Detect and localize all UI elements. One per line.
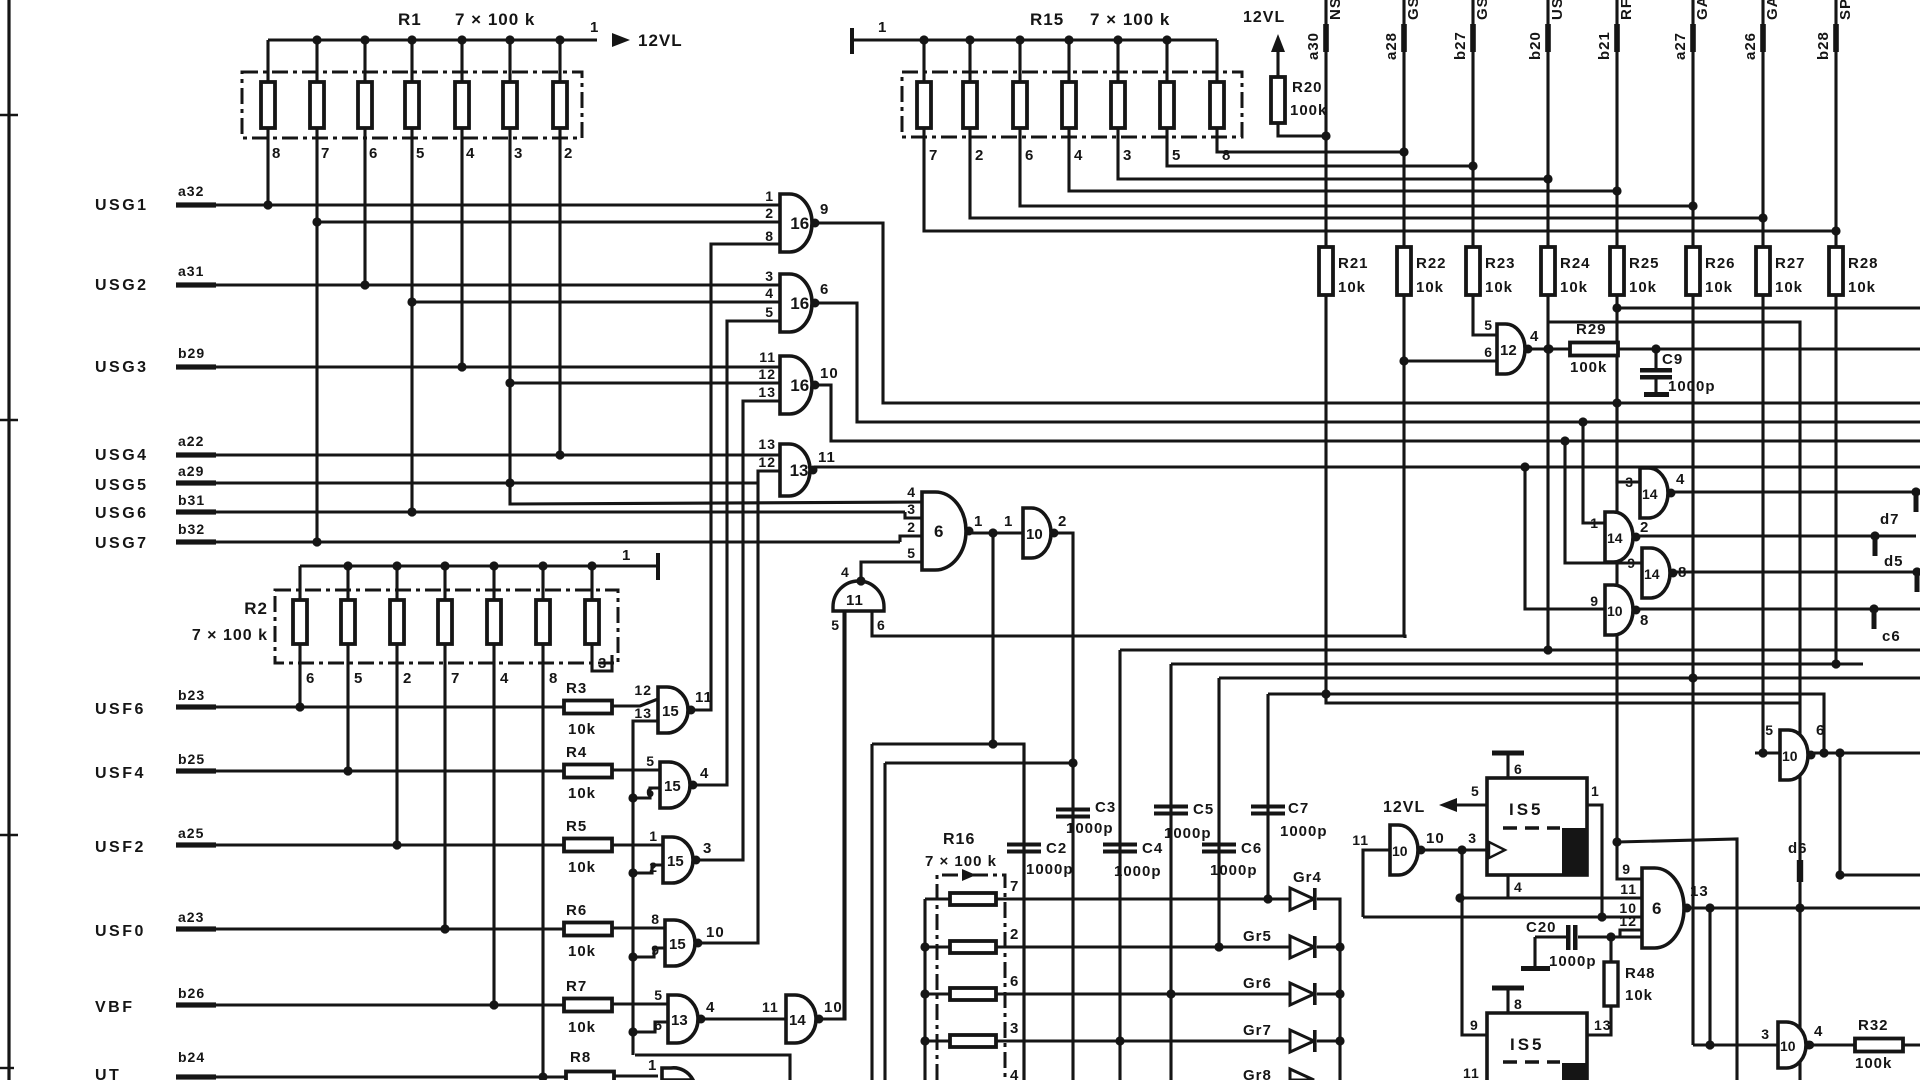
wire USG2 <box>214 283 780 286</box>
svg-text:14: 14 <box>1644 566 1660 582</box>
wire R1 pin6 <box>363 128 366 285</box>
svg-text:a23: a23 <box>178 909 204 925</box>
IS5 b internal dashes <box>1503 1060 1560 1063</box>
svg-text:5: 5 <box>1484 317 1493 333</box>
svg-text:R26: R26 <box>1705 255 1736 272</box>
wire <box>1165 40 1168 82</box>
resistor R3 <box>564 701 612 714</box>
junction R29/C9 <box>1651 344 1660 353</box>
wire R25 down <box>1617 295 1642 879</box>
wire gate12 output line <box>1524 347 1920 350</box>
wire <box>443 566 446 600</box>
wire R2 pin8 <box>541 645 544 1077</box>
connector pin a28 GS <box>1402 0 1405 248</box>
wire R16 row6 to Gr6 <box>996 992 1290 995</box>
svg-text:1000p: 1000p <box>1164 825 1212 842</box>
border tick <box>0 114 18 116</box>
wire <box>925 945 950 948</box>
wire USG7 to gate 6a input 2 <box>900 536 922 542</box>
svg-text:9: 9 <box>1470 1017 1479 1033</box>
svg-text:11: 11 <box>759 349 776 365</box>
resistor R1.1 <box>261 82 275 128</box>
wire <box>460 40 463 82</box>
resistor R16.2 <box>950 941 996 953</box>
svg-text:16: 16 <box>790 214 809 233</box>
wire <box>395 566 398 600</box>
gate 14r1 <box>1640 468 1668 518</box>
wire <box>1067 40 1070 82</box>
junction <box>489 561 498 570</box>
resistor R29 <box>1570 343 1618 356</box>
junction R2.8/UT <box>538 1072 547 1080</box>
wire bus to gate 13b input 6 <box>633 1022 668 1032</box>
resistor R2.4 <box>438 600 452 644</box>
resistor R6 <box>564 923 612 936</box>
svg-text:11: 11 <box>1352 832 1369 848</box>
wire R1 pin7 <box>315 128 318 545</box>
svg-text:1000p: 1000p <box>1210 862 1258 879</box>
diode Gr7 <box>1290 1030 1314 1052</box>
wire <box>922 40 925 82</box>
junction R24/R29 <box>1543 344 1552 353</box>
border tick <box>0 834 18 836</box>
wire <box>346 566 349 600</box>
resistor network R2 box <box>275 590 618 663</box>
wire <box>1116 40 1119 82</box>
gate 15c <box>663 837 693 883</box>
resistor R4 <box>564 765 612 778</box>
wire R2 pin5 <box>346 645 349 771</box>
wire R27 down <box>1761 295 1764 753</box>
wire R7 to gate 13b input 5 <box>612 1002 668 1005</box>
svg-text:7: 7 <box>1010 878 1019 895</box>
svg-text:10k: 10k <box>568 721 596 738</box>
arrow R16 <box>962 869 976 881</box>
resistor R7 <box>564 999 612 1012</box>
resistor R2.3 <box>390 600 404 644</box>
resistor R1.4 <box>405 82 419 128</box>
wire gate 6b input 10 <box>1363 915 1642 918</box>
svg-text:USG2: USG2 <box>95 277 149 294</box>
svg-text:7: 7 <box>321 145 330 162</box>
svg-text:3: 3 <box>1123 147 1132 164</box>
junction <box>312 217 321 226</box>
svg-text:10: 10 <box>824 999 843 1016</box>
resistor R15.1 <box>917 82 931 128</box>
svg-text:14: 14 <box>1607 530 1623 546</box>
wire R48 to IS5b pin13 <box>1609 937 1612 962</box>
junction <box>440 561 449 570</box>
junction R1.4/USG3 <box>457 362 466 371</box>
svg-text:a32: a32 <box>178 183 204 199</box>
svg-text:IS5: IS5 <box>1509 800 1544 819</box>
resistor R15.4 <box>1062 82 1076 128</box>
wire R15 pin8 to a28 <box>1217 128 1404 152</box>
junction <box>505 378 514 387</box>
svg-text:8: 8 <box>272 145 281 162</box>
gate 14r3 <box>1642 548 1670 598</box>
wire gate 15a input 13 to bus <box>633 721 658 1055</box>
page border left <box>7 0 10 1080</box>
svg-text:12VL: 12VL <box>638 31 683 50</box>
svg-text:R22: R22 <box>1416 255 1447 272</box>
svg-text:4: 4 <box>500 670 509 687</box>
svg-text:5: 5 <box>1471 783 1480 799</box>
gate 13a <box>780 444 810 496</box>
junction <box>360 35 369 44</box>
wire R4 to gate 15b input 5 <box>612 768 660 771</box>
IS5 a black corner <box>1562 828 1587 874</box>
wire <box>315 40 318 82</box>
wire R8 to bottom gate input 1 <box>614 1074 658 1077</box>
svg-text:4: 4 <box>907 484 916 500</box>
flip-flop IS5 a box <box>1487 778 1587 875</box>
svg-text:C2: C2 <box>1046 840 1067 857</box>
wire R2 pin7 <box>443 645 446 929</box>
wire R1 pin7 to gate 16a input 2 <box>317 220 780 223</box>
gate 15b <box>660 762 690 808</box>
svg-text:1000p: 1000p <box>1668 378 1716 395</box>
svg-text:1000p: 1000p <box>1114 863 1162 880</box>
svg-text:c6: c6 <box>1882 628 1901 645</box>
resistor R15.6 <box>1160 82 1174 128</box>
svg-text:4: 4 <box>700 765 709 782</box>
svg-text:10k: 10k <box>568 1019 596 1036</box>
svg-text:2: 2 <box>1010 926 1019 943</box>
junction C4 row3 <box>1115 1036 1124 1045</box>
IS5 b pin8 terminal <box>1506 990 1509 1013</box>
svg-text:15: 15 <box>662 703 679 720</box>
junction C5 row6 <box>1166 989 1175 998</box>
svg-text:7 × 100 k: 7 × 100 k <box>192 627 268 644</box>
svg-text:7 × 100 k: 7 × 100 k <box>455 10 535 29</box>
resistor R16.7 <box>950 893 996 905</box>
svg-text:Gr4: Gr4 <box>1293 869 1322 886</box>
wire USF4 <box>214 769 564 772</box>
junction b21 <box>1612 186 1621 195</box>
svg-text:6: 6 <box>877 617 886 633</box>
svg-text:7 × 100 k: 7 × 100 k <box>925 853 997 870</box>
svg-text:10k: 10k <box>1338 279 1366 296</box>
wire R15 pin3 to b20 <box>1118 128 1548 179</box>
node d7 terminal <box>1911 487 1920 496</box>
svg-text:Gr5: Gr5 <box>1243 928 1272 945</box>
wire R1 common bus <box>268 38 597 41</box>
svg-text:11: 11 <box>1620 881 1637 897</box>
wire R1 pin8 <box>266 128 269 205</box>
svg-text:Gr8: Gr8 <box>1243 1067 1272 1080</box>
svg-text:USF6: USF6 <box>95 701 146 718</box>
wire R3 to gate 15a input 12 <box>612 699 658 706</box>
capacitor C4 <box>1103 843 1137 847</box>
junction R22/gate12 in6 <box>1399 356 1408 365</box>
wire gate 10d output to R32 <box>1810 1043 1855 1046</box>
junction <box>343 561 352 570</box>
svg-text:3: 3 <box>514 145 523 162</box>
wire USG7 <box>214 540 900 543</box>
junction R16 bus <box>920 1036 929 1045</box>
svg-text:13: 13 <box>1594 1017 1612 1033</box>
junction <box>965 35 974 44</box>
junction <box>1544 344 1553 353</box>
svg-text:7 × 100 k: 7 × 100 k <box>1090 10 1170 29</box>
svg-text:5: 5 <box>646 753 655 769</box>
svg-text:R24: R24 <box>1560 255 1591 272</box>
junction <box>988 528 997 537</box>
svg-text:R3: R3 <box>566 680 587 697</box>
wire <box>925 992 950 995</box>
svg-text:USG7: USG7 <box>95 535 149 552</box>
svg-text:13: 13 <box>758 384 776 400</box>
wire R2 pin6 <box>298 645 301 707</box>
resistor R32 <box>1855 1039 1903 1052</box>
svg-text:9: 9 <box>1622 861 1631 877</box>
svg-text:6: 6 <box>1025 147 1034 164</box>
wire R20 to a30 <box>1278 123 1326 136</box>
svg-text:6: 6 <box>820 281 829 298</box>
svg-text:10: 10 <box>1426 830 1445 847</box>
wire C20 left <box>1535 935 1566 938</box>
svg-text:4: 4 <box>1814 1023 1823 1040</box>
svg-text:8: 8 <box>1514 996 1523 1012</box>
wire <box>1317 1039 1340 1042</box>
svg-text:100k: 100k <box>1855 1055 1892 1072</box>
svg-text:10k: 10k <box>1625 987 1653 1004</box>
wire gate 11 pin6 line <box>872 611 1405 638</box>
wire R16 row3 to Gr7 <box>996 1039 1290 1042</box>
svg-text:3: 3 <box>1468 830 1477 846</box>
wire gate 6a output to gate 10a input 1 <box>969 531 1023 534</box>
wire gate 6b input 12 <box>1611 930 1642 937</box>
svg-text:2: 2 <box>907 519 916 535</box>
svg-text:USF0: USF0 <box>95 923 146 940</box>
wire gate 15c output to gate 16c input 13 <box>696 401 780 860</box>
svg-text:US: US <box>1549 0 1566 20</box>
wire R2 pin4 <box>492 645 495 1005</box>
wire junction down to IS5b pin9 <box>1462 850 1487 1035</box>
diode Gr4 <box>1290 888 1314 910</box>
connector pin b20 US <box>1546 0 1549 248</box>
svg-text:USF2: USF2 <box>95 839 146 856</box>
junction diode bus <box>1335 989 1344 998</box>
capacitor C2 <box>1007 843 1041 847</box>
node terminal right <box>1912 567 1920 576</box>
junction <box>457 35 466 44</box>
svg-text:100k: 100k <box>1570 359 1607 376</box>
resistor R2.5 <box>487 600 501 644</box>
junction bus <box>628 868 637 877</box>
svg-text:16: 16 <box>790 294 809 313</box>
wire Gr4 to bus <box>1317 899 1340 1080</box>
junction <box>1835 870 1844 879</box>
svg-text:2: 2 <box>564 145 573 162</box>
svg-text:6: 6 <box>1652 899 1661 918</box>
wire USF6 <box>214 705 564 708</box>
wire <box>1317 992 1340 995</box>
IS5 a pin4 stub <box>1506 875 1509 898</box>
junction a28 <box>1399 147 1408 156</box>
terminal 1 of R15 <box>850 28 854 54</box>
ground C20 <box>1533 937 1536 966</box>
svg-text:10k: 10k <box>1705 279 1733 296</box>
svg-text:4: 4 <box>706 999 715 1016</box>
svg-text:10: 10 <box>1782 748 1798 764</box>
svg-text:4: 4 <box>765 285 774 301</box>
wire gate 10c input 5 <box>1755 751 1780 754</box>
wire R21 down <box>1326 295 1800 703</box>
junction R26/line678 <box>1688 673 1697 682</box>
svg-text:13: 13 <box>634 705 652 721</box>
junction a26 <box>1758 213 1767 222</box>
wire R15 pin4 to b21 <box>1069 128 1617 191</box>
svg-text:1: 1 <box>974 513 983 530</box>
svg-text:9: 9 <box>1590 593 1599 609</box>
resistor network R1 box <box>242 72 582 138</box>
svg-text:3: 3 <box>1010 1020 1019 1037</box>
svg-text:a31: a31 <box>178 263 204 279</box>
junction C20/R48 <box>1606 932 1615 941</box>
wire R2 pin2 <box>395 645 398 845</box>
wire bus to gate 15b input 6 <box>633 788 660 798</box>
svg-text:5: 5 <box>416 145 425 162</box>
junction R28/line664 <box>1831 659 1840 668</box>
svg-text:C7: C7 <box>1288 800 1309 817</box>
svg-text:10: 10 <box>706 924 725 941</box>
junction R2.6/USF6 <box>295 702 304 711</box>
junction R2.5/USF4 <box>343 766 352 775</box>
svg-text:10k: 10k <box>1848 279 1876 296</box>
junction bus <box>628 1027 637 1036</box>
wire gate16c-out to gate 14r3 input 9 <box>1565 441 1642 563</box>
junction b27 <box>1468 161 1477 170</box>
gate 16b <box>780 274 812 332</box>
gate 13b <box>668 995 698 1043</box>
wire R2 pin3 stub <box>592 645 612 671</box>
svg-text:d7: d7 <box>1880 511 1900 528</box>
svg-text:SP: SP <box>1837 0 1854 20</box>
svg-text:10k: 10k <box>1485 279 1513 296</box>
wire USG3 <box>214 365 780 368</box>
svg-text:8: 8 <box>765 228 774 244</box>
svg-text:11: 11 <box>818 449 836 466</box>
junction <box>1457 845 1466 854</box>
wire R22 down <box>1402 295 1405 636</box>
wire R6 to gate 15d input 8 <box>612 926 665 929</box>
resistor R16.6 <box>950 988 996 1000</box>
junction diode bus <box>1335 1036 1344 1045</box>
gate 6a <box>922 492 966 570</box>
junction R24/line650 <box>1543 645 1552 654</box>
resistor R20 <box>1271 77 1285 123</box>
svg-text:R5: R5 <box>566 818 587 835</box>
junction <box>1578 417 1587 426</box>
svg-text:a27: a27 <box>1672 32 1689 60</box>
wire bus to gate 15c input 2 <box>633 865 663 873</box>
wire gate 10a output down to C3 column <box>1054 533 1073 1080</box>
svg-text:3: 3 <box>907 501 916 517</box>
wire USF2 <box>214 843 564 846</box>
wire <box>925 1039 950 1042</box>
junction pin1/in10 line <box>1597 912 1606 921</box>
svg-text:8: 8 <box>1640 612 1649 629</box>
svg-text:12: 12 <box>758 366 776 382</box>
resistor R15.5 <box>1111 82 1125 128</box>
svg-text:7: 7 <box>451 670 460 687</box>
wire <box>1215 40 1218 82</box>
svg-text:13: 13 <box>790 461 809 480</box>
capacitor C7 <box>1251 805 1285 809</box>
wire VBF <box>214 1003 564 1006</box>
junction R1.8/USG1 <box>263 200 272 209</box>
wire gate 11 pin4 to gate 6a input 5 <box>861 562 922 581</box>
svg-text:R20: R20 <box>1292 79 1323 96</box>
junction <box>1015 35 1024 44</box>
resistor R28 <box>1829 247 1843 295</box>
junction <box>1705 1040 1714 1049</box>
svg-text:10k: 10k <box>1775 279 1803 296</box>
junction C7 row7 <box>1263 894 1272 903</box>
wire USG6 to gate 6a input 3 <box>905 512 922 518</box>
svg-text:6: 6 <box>1484 344 1493 360</box>
wire gate 14b output up to gate 11 pin 5 <box>819 611 845 1019</box>
svg-text:5: 5 <box>1172 147 1181 164</box>
svg-text:USG3: USG3 <box>95 359 149 376</box>
wire USG1 <box>214 203 780 206</box>
resistor R1.2 <box>310 82 324 128</box>
svg-text:10: 10 <box>1026 526 1043 543</box>
junction R27/gate10c in5 <box>1758 748 1767 757</box>
wire mid link y763 <box>885 761 1073 764</box>
gate 14r2 <box>1605 512 1633 562</box>
svg-text:1000p: 1000p <box>1066 820 1114 837</box>
wire R1 pin5 to gate 16b input 4 <box>412 300 780 303</box>
svg-text:R1: R1 <box>398 10 422 29</box>
wire R24 down <box>1546 295 1549 650</box>
svg-text:2: 2 <box>1058 513 1067 530</box>
svg-text:11: 11 <box>846 592 864 609</box>
svg-text:10: 10 <box>820 365 839 382</box>
diode Gr5 <box>1290 936 1314 958</box>
wire line664 <box>1171 662 1863 665</box>
gate 10d <box>1778 1022 1806 1068</box>
wire bus to gate 15d input 9 <box>633 948 665 957</box>
wire line650 <box>1120 648 1920 651</box>
svg-text:12: 12 <box>758 454 776 470</box>
connector pin b27 GS <box>1471 0 1474 248</box>
svg-text:b23: b23 <box>178 687 205 703</box>
svg-text:1: 1 <box>765 188 774 204</box>
svg-text:GA: GA <box>1764 0 1781 20</box>
wire gate 16b output <box>817 303 1920 422</box>
svg-text:R25: R25 <box>1629 255 1660 272</box>
svg-text:13: 13 <box>1690 883 1709 900</box>
wire R1 pin3 <box>510 128 922 504</box>
IS5 a clock triangle <box>1489 842 1505 858</box>
junction <box>392 561 401 570</box>
junction <box>538 561 547 570</box>
junction <box>1520 462 1529 471</box>
gate 15d <box>665 920 695 966</box>
svg-text:R8: R8 <box>570 1049 591 1066</box>
wire gate 10c output <box>1813 751 1920 754</box>
svg-text:C9: C9 <box>1662 351 1683 368</box>
junction <box>407 35 416 44</box>
svg-text:NS: NS <box>1327 0 1344 20</box>
svg-text:a28: a28 <box>1383 32 1400 60</box>
svg-text:b21: b21 <box>1596 31 1613 60</box>
svg-text:d6: d6 <box>1788 840 1808 857</box>
junction R16 bus <box>920 989 929 998</box>
